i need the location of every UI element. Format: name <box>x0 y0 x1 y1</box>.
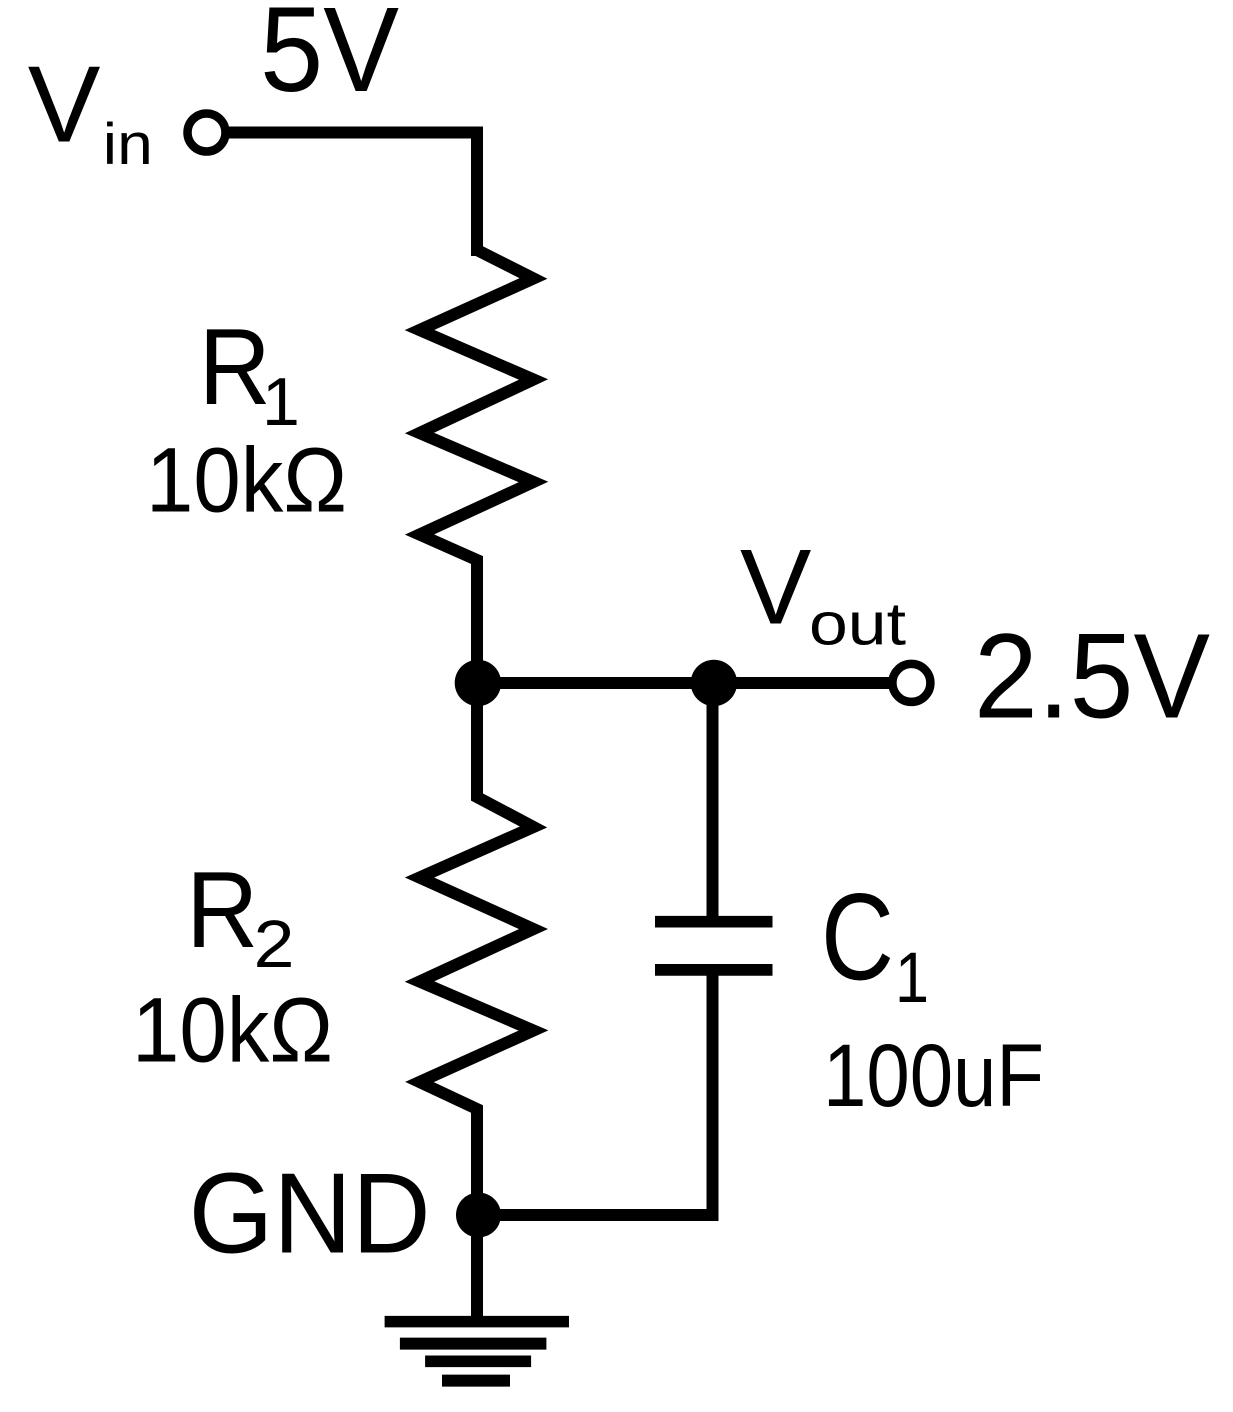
wire R2 bottom to ground node <box>471 1110 483 1215</box>
wire Vin terminal to top corner and down to R1 <box>225 133 477 257</box>
svg-text:1: 1 <box>895 939 929 1018</box>
node B junction dot (capacitor tap) <box>691 660 737 706</box>
svg-text:5V: 5V <box>260 0 399 117</box>
svg-text:2.5V: 2.5V <box>974 608 1210 744</box>
wire node A to Vout terminal <box>477 677 890 689</box>
svg-text:V: V <box>740 526 811 646</box>
svg-text:10kΩ: 10kΩ <box>146 430 347 532</box>
ground symbol bar 2 <box>400 1338 547 1350</box>
ground symbol bar 3 <box>425 1356 531 1368</box>
ground symbol bar 4 <box>442 1375 510 1387</box>
resistor R2 (zigzag) <box>420 790 534 1116</box>
svg-text:10kΩ: 10kΩ <box>132 979 333 1081</box>
svg-text:out: out <box>809 591 906 658</box>
svg-text:in: in <box>103 112 153 177</box>
svg-text:100uF: 100uF <box>823 1025 1044 1125</box>
terminal Vout (open circle) <box>892 664 930 702</box>
resistor R1 (zigzag) <box>420 243 534 567</box>
wire ground node down to ground symbol <box>471 1215 483 1322</box>
svg-text:C: C <box>821 869 894 1006</box>
capacitor C1 top plate <box>655 916 773 928</box>
node GND junction dot <box>456 1193 501 1238</box>
svg-text:R: R <box>199 306 271 428</box>
wire node A down to R2 <box>471 683 483 796</box>
terminal Vin (open circle) <box>188 114 226 152</box>
svg-text:GND: GND <box>189 1151 431 1278</box>
wire C1 bottom plate down to bottom rail <box>707 970 719 1221</box>
svg-text:R: R <box>186 849 258 971</box>
svg-text:2: 2 <box>254 907 295 982</box>
ground symbol bar 1 <box>385 1316 569 1328</box>
capacitor C1 bottom plate <box>655 964 773 976</box>
wire R1 bottom to node A <box>471 561 483 683</box>
wire capacitor branch: node B down to C1 top plate <box>707 683 719 916</box>
wire bottom rail from ground node to capacitor branch <box>477 1209 719 1221</box>
node A junction dot <box>455 660 501 706</box>
svg-text:V: V <box>28 44 101 166</box>
